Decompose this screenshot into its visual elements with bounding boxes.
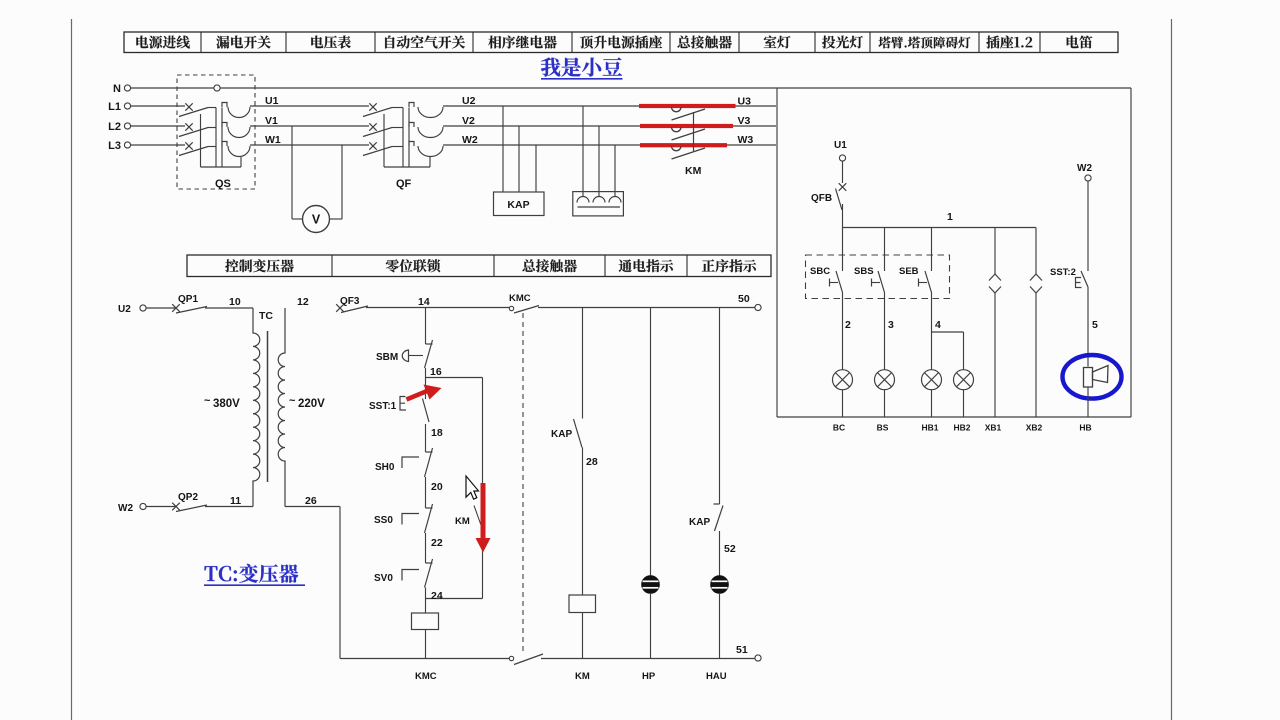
wire HAU branch lower: [719, 531, 721, 576]
svg-text:1: 1: [947, 211, 953, 223]
svg-text:HB: HB: [1079, 423, 1091, 433]
terminal W2 control: [140, 503, 146, 509]
red highlight U3: [639, 104, 736, 108]
terminal L3: [124, 142, 130, 148]
limit switch SS0: [402, 504, 433, 533]
svg-text:14: 14: [418, 296, 430, 308]
lamp BC: [833, 370, 853, 390]
legend table row 1: [124, 32, 1118, 53]
wire secondary return: [285, 507, 340, 659]
svg-text:50: 50: [738, 293, 750, 305]
mouse cursor: [466, 476, 479, 499]
terminal W2 right: [1085, 175, 1091, 181]
svg-text:12: 12: [297, 296, 309, 308]
wire bottom bus left: [340, 658, 510, 660]
breaker QP2: [146, 503, 253, 512]
push button SEB: [919, 228, 932, 293]
svg-text:SS0: SS0: [374, 515, 393, 526]
wire SH0 to SS0: [425, 477, 427, 508]
limit switch SH0: [402, 448, 433, 477]
push button SBC: [830, 228, 843, 293]
wire self-hold lower: [482, 528, 484, 599]
svg-text:5: 5: [1092, 319, 1098, 331]
svg-text:2: 2: [845, 319, 851, 331]
contactor KM main contacts: [672, 107, 706, 159]
wire horn to bus: [1087, 387, 1089, 417]
main disconnect leakage breaker QS: [177, 75, 255, 189]
svg-text:SST:2: SST:2: [1050, 267, 1076, 278]
svg-text:W2: W2: [462, 134, 478, 146]
svg-text:~: ~: [204, 395, 211, 407]
socket XB1: [989, 228, 1001, 418]
svg-text:22: 22: [431, 537, 443, 549]
wire SEB to HB lamps: [932, 293, 964, 370]
svg-text:U3: U3: [738, 96, 752, 108]
svg-text:V1: V1: [265, 115, 278, 127]
key switch SST:2: [1076, 271, 1089, 288]
wire bottom bus right: [541, 658, 755, 660]
svg-text:QS: QS: [215, 178, 231, 190]
push button SBS: [872, 228, 885, 293]
lamp BS: [875, 370, 895, 390]
wire HAU to bus: [719, 593, 721, 659]
svg-text:SBM: SBM: [376, 352, 398, 363]
red highlight V3: [640, 124, 733, 128]
auxiliary contact KM: [474, 506, 482, 527]
svg-text:26: 26: [305, 495, 317, 507]
svg-text:U1: U1: [834, 140, 847, 151]
breaker QP1: [146, 304, 253, 313]
wire HP to bus: [650, 593, 652, 659]
voltmeter PV: [292, 126, 342, 233]
wire top control line: [366, 307, 510, 309]
svg-text:10: 10: [229, 296, 241, 308]
wire SV0 to node24: [425, 588, 427, 614]
phase sequence relay KAP: [494, 106, 545, 216]
svg-text:W3: W3: [738, 134, 754, 146]
wire SS0 to SV0: [425, 533, 427, 563]
wire L1-U: [131, 105, 776, 107]
wire KM branch upper: [582, 308, 584, 419]
label 220V: [289, 395, 325, 410]
svg-text:QP1: QP1: [178, 294, 198, 305]
sheet border right: [1171, 19, 1173, 720]
legend table row 2: [187, 255, 771, 277]
wire KMC coil to bus: [425, 630, 427, 659]
wire SBC to BC lamp: [842, 293, 844, 370]
contact KMC top: [509, 306, 539, 314]
svg-text:QF: QF: [396, 178, 412, 190]
indicator lamp HAU: [711, 576, 728, 593]
contactor coil KM: [569, 595, 596, 613]
wire W2 to SST2: [1087, 181, 1089, 271]
dashed linkage KMC: [522, 313, 524, 652]
node 24 branch wire: [426, 598, 483, 600]
svg-text:L3: L3: [108, 140, 121, 152]
svg-text:SBC: SBC: [810, 266, 830, 277]
svg-text:SBS: SBS: [854, 266, 874, 277]
svg-text:QF3: QF3: [340, 296, 360, 307]
svg-text:SST:1: SST:1: [369, 401, 397, 412]
svg-text:KAP: KAP: [507, 199, 529, 211]
contact KAP no1: [574, 419, 583, 448]
lamp HB1: [922, 370, 942, 390]
svg-text:~: ~: [289, 395, 296, 407]
red arrow pointing at SST1: [407, 385, 442, 400]
wire BS to bus: [884, 390, 886, 417]
wire self-hold branch: [482, 378, 484, 506]
wire SST1 to SH0: [425, 424, 427, 452]
emergency stop button SBM: [402, 340, 432, 368]
wire L3-W: [131, 144, 776, 146]
wire bus 1: [843, 227, 1037, 229]
svg-text:SEB: SEB: [899, 266, 919, 277]
svg-text:U2: U2: [462, 95, 476, 107]
red highlight W3: [640, 143, 727, 147]
sheet border left: [71, 19, 73, 720]
svg-text:TC: TC: [259, 310, 273, 322]
svg-text:HB2: HB2: [953, 423, 970, 433]
svg-text:KMC: KMC: [415, 671, 437, 682]
wire HB2 to bus: [963, 390, 965, 417]
socket XB2: [1030, 228, 1042, 418]
svg-text:BS: BS: [877, 423, 889, 433]
svg-text:28: 28: [586, 456, 598, 468]
svg-text:W2: W2: [1077, 163, 1092, 174]
breaker QFB: [836, 161, 847, 228]
svg-text:U1: U1: [265, 95, 279, 107]
terminal L1: [124, 103, 130, 109]
wire N / lamp-circuit frame: [131, 88, 1131, 417]
svg-text:BC: BC: [833, 423, 845, 433]
svg-text:L2: L2: [108, 121, 121, 133]
wire top line to 50: [538, 307, 755, 309]
wire HP branch: [650, 308, 652, 577]
svg-text:QFB: QFB: [811, 193, 832, 204]
svg-text:3: 3: [888, 319, 894, 331]
svg-text:KM: KM: [685, 165, 702, 177]
wire HB1 to bus: [931, 390, 933, 417]
red arrow pointing down at KM aux: [476, 483, 491, 553]
wire SBS to BS lamp: [884, 293, 886, 370]
svg-text:HB1: HB1: [921, 423, 938, 433]
svg-text:KAP: KAP: [551, 429, 572, 440]
svg-text:51: 51: [736, 644, 748, 656]
contact KAP no2: [714, 504, 724, 531]
breaker QF3: [336, 304, 368, 312]
horn HB: [1084, 366, 1109, 388]
contact KMC bottom: [509, 654, 543, 665]
svg-text:HAU: HAU: [706, 671, 727, 682]
air circuit breaker QF: [363, 103, 443, 168]
svg-text:W2: W2: [118, 503, 133, 514]
terminal 50: [755, 304, 761, 310]
terminal 51: [755, 655, 761, 661]
label 380V: [204, 395, 240, 410]
node 16 branch wire: [426, 377, 483, 379]
svg-text:380V: 380V: [213, 398, 240, 410]
svg-text:XB1: XB1: [985, 423, 1002, 433]
transformer TC primary winding: [253, 308, 260, 507]
svg-text:V3: V3: [738, 115, 751, 127]
jacking power socket XS: [573, 106, 624, 216]
note TC 变压器: [204, 564, 305, 585]
contactor coil KMC: [412, 613, 439, 630]
terminal N: [124, 85, 130, 91]
svg-text:V: V: [312, 213, 321, 227]
svg-text:L1: L1: [108, 101, 121, 113]
title note 我是小豆: [541, 57, 623, 78]
svg-text:20: 20: [431, 481, 443, 493]
svg-text:16: 16: [430, 366, 442, 378]
svg-text:U2: U2: [118, 304, 131, 315]
wire chain from 14: [425, 308, 427, 344]
lamp HB2: [954, 370, 974, 390]
wire 16 to SST1: [425, 378, 427, 400]
svg-text:11: 11: [230, 495, 241, 507]
svg-text:N: N: [113, 83, 121, 95]
svg-text:24: 24: [431, 590, 443, 602]
transformer TC core: [267, 331, 269, 482]
wire SST2 to horn: [1087, 287, 1089, 367]
svg-text:XB2: XB2: [1026, 423, 1043, 433]
svg-text:KM: KM: [455, 516, 470, 527]
wire HAU branch upper: [719, 308, 721, 505]
svg-text:18: 18: [431, 427, 443, 439]
wire SBM to node16: [425, 368, 427, 378]
wire KM branch lower: [582, 448, 584, 596]
key switch SST:1: [400, 397, 429, 423]
transformer TC secondary winding: [278, 308, 285, 507]
terminal L2: [124, 123, 130, 129]
svg-text:4: 4: [935, 319, 941, 331]
svg-text:52: 52: [724, 543, 736, 555]
svg-text:HP: HP: [642, 671, 656, 682]
wire KM coil to bus: [582, 613, 584, 659]
limit switch SV0: [402, 559, 433, 588]
svg-text:KM: KM: [575, 671, 590, 682]
svg-text:KAP: KAP: [689, 517, 710, 528]
svg-text:KMC: KMC: [509, 293, 531, 304]
terminal U2 control: [140, 305, 146, 311]
blue ellipse highlight: [1063, 355, 1122, 399]
wire BC to bus: [842, 390, 844, 417]
svg-text:SH0: SH0: [375, 462, 395, 473]
dashed box buttons: [806, 255, 950, 299]
svg-text:QP2: QP2: [178, 492, 198, 503]
indicator lamp HP: [642, 576, 659, 593]
svg-text:W1: W1: [265, 134, 281, 146]
wire L2-V: [131, 125, 776, 127]
svg-text:SV0: SV0: [374, 573, 393, 584]
svg-text:V2: V2: [462, 115, 475, 127]
terminal U1 right: [839, 155, 845, 161]
svg-text:220V: 220V: [298, 398, 325, 410]
